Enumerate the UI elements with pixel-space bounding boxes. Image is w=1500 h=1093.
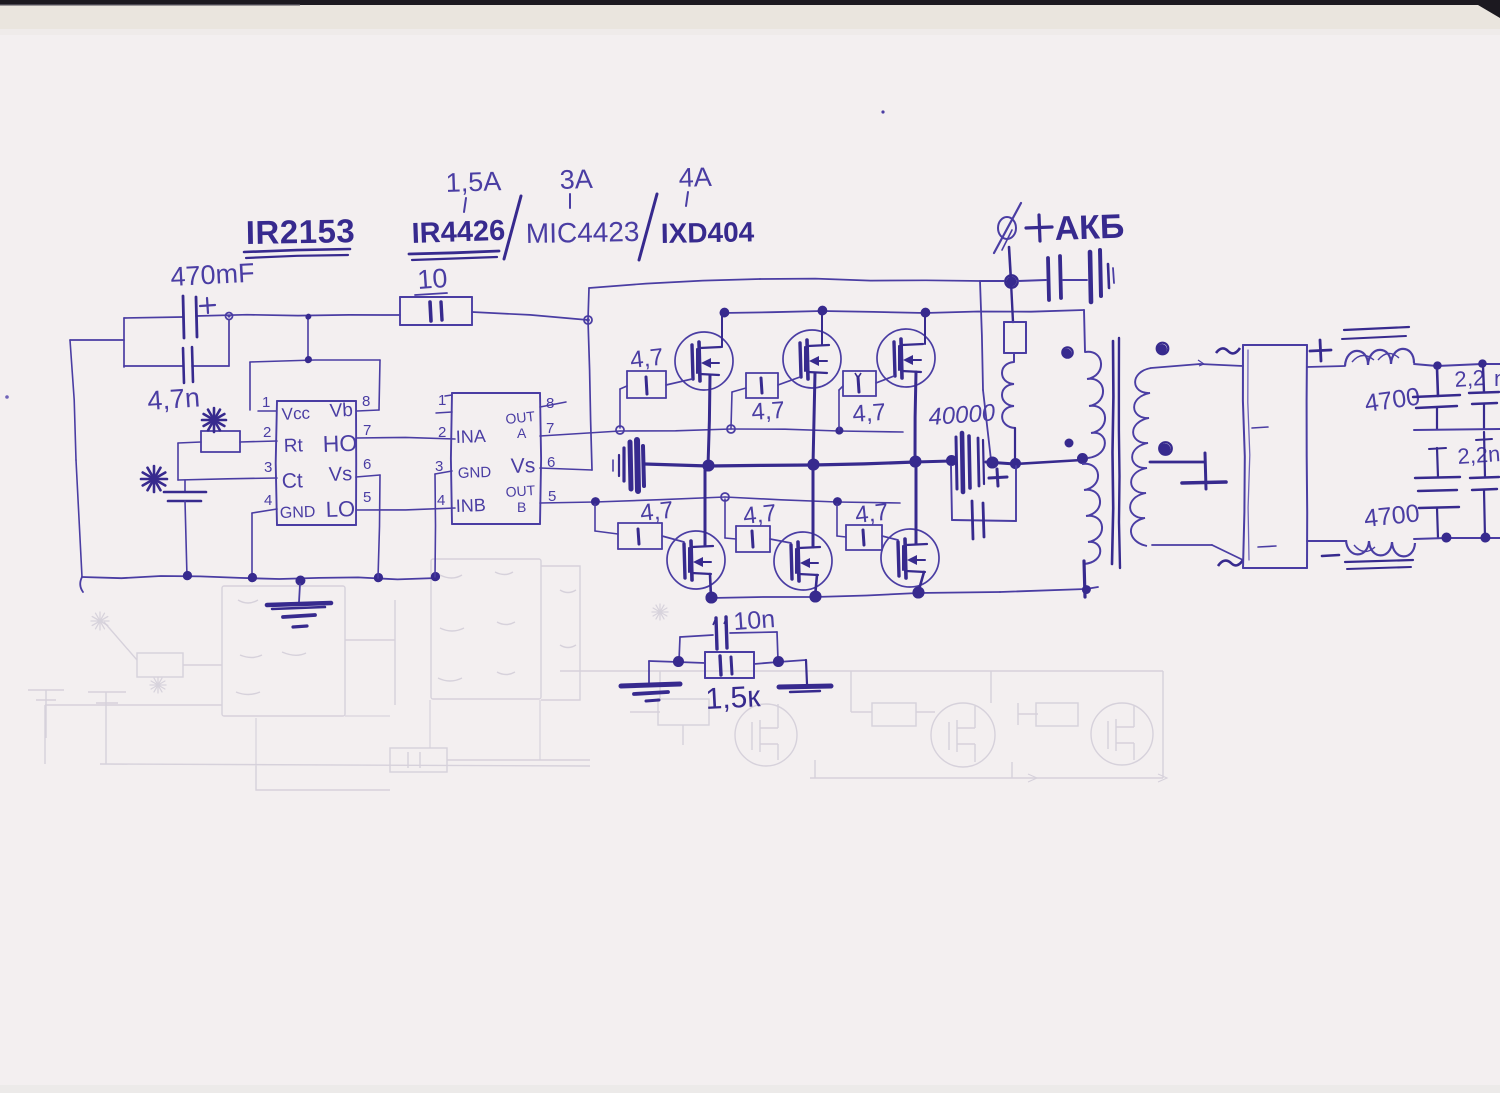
stray pen dot: [881, 110, 884, 113]
wire: T1 primary bottom lead: [1084, 561, 1085, 597]
wire: R1 to Q1 gate: [666, 379, 692, 385]
svg-text:B: B: [517, 499, 526, 515]
wire: AKB junction left to rail: [980, 280, 1004, 282]
T1 lower phase dot: [1065, 439, 1074, 448]
inductor L1 bars above: [1344, 327, 1409, 330]
node: outB j2: [721, 493, 729, 501]
inductor L2 bars below: [1345, 560, 1413, 562]
plus mark secondary mid: [1205, 453, 1206, 489]
wire: Q1 source to mid rail: [708, 375, 710, 466]
battery input terminal scribble: [612, 460, 614, 471]
resistor R4: [618, 522, 662, 524]
plus sign of C1: [200, 305, 215, 306]
svg-text:1,5A: 1,5A: [445, 166, 502, 198]
scanner black bar top: [0, 0, 1500, 5]
op IC U1 IR2153 box: [277, 400, 356, 402]
plus sign output: [1310, 350, 1331, 351]
node: rail j5: [431, 573, 439, 581]
wire: OUT B hook to R4: [594, 504, 596, 531]
capacitor 2,2n top: [1483, 366, 1484, 392]
wire: drain rail drop to transformer: [1084, 310, 1085, 352]
T1 secondary phase dot mid: [1160, 444, 1171, 455]
node: rail j1: [183, 572, 191, 580]
wire: Q5 source to bottom rail: [815, 575, 817, 597]
node: mid j5: [987, 458, 998, 469]
wire: secondary mid tap: [1150, 461, 1205, 464]
resistor 10 inner bars: [430, 302, 431, 321]
capacitor battery cap1 plates: [1048, 258, 1049, 300]
svg-text:2: 2: [263, 424, 271, 441]
rectifier inner dash top: [1252, 427, 1268, 428]
svg-text:7: 7: [363, 422, 371, 439]
transistor Q4: [666, 530, 726, 590]
wire: right vertical from top rail to mid rail: [980, 281, 983, 390]
pin 1 underline: [258, 410, 276, 412]
wire: left outer loop: [70, 339, 124, 341]
capacitor Ct plates: [184, 480, 186, 492]
svg-text:8: 8: [362, 393, 370, 410]
resistor R1: [627, 370, 666, 372]
wire: Rt left leg down: [178, 442, 201, 443]
wire: Q6 source to bottom rail: [918, 572, 924, 593]
wire: Ct to ground rail: [185, 501, 187, 577]
svg-text:GND: GND: [458, 464, 492, 482]
svg-text:Vcc: Vcc: [281, 404, 311, 424]
node: outA j2: [727, 425, 735, 433]
wire: left bracket vertical: [123, 318, 125, 367]
svg-text:2: 2: [438, 424, 446, 441]
svg-text:OUT: OUT: [505, 482, 536, 500]
wire: bridge left vertical: [588, 288, 589, 320]
capacitor 4700 bottom: [1437, 448, 1438, 477]
inductor choke loops: [1002, 362, 1015, 428]
node: T1 center tap: [1077, 454, 1087, 464]
node: bottom j1: [706, 593, 717, 604]
svg-text:HO: HO: [322, 430, 357, 457]
wire: Q3 drain to rail: [924, 313, 926, 344]
svg-text:10: 10: [416, 263, 448, 295]
wire: Q4 drain to mid rail: [704, 466, 707, 546]
svg-text:GND: GND: [280, 504, 316, 522]
slash separator: [639, 194, 657, 260]
bypass cap plates: [972, 501, 973, 539]
capacitor lower bypass loop: [951, 466, 952, 520]
tilde AC mark top: [1216, 348, 1240, 353]
wire: between caps: [1063, 279, 1087, 281]
rectifier bridge box: [1243, 344, 1307, 346]
wire: 10 resistor to bridge: [472, 312, 588, 320]
node: drain j2: [818, 307, 827, 316]
wire: mid rail right of cap: [986, 462, 1015, 464]
svg-text:3: 3: [264, 459, 272, 476]
wire: U1 GND pin4 to rail: [252, 509, 277, 513]
driver IC U2 box: [452, 392, 540, 394]
node: out bot j2: [1481, 534, 1490, 543]
node: junction on top wire: [226, 313, 233, 320]
wire: top supply rail of bridge: [589, 279, 760, 288]
svg-text:MIC4423: MIC4423: [526, 216, 640, 249]
tilde AC mark bottom: [1218, 560, 1243, 566]
wire: Q5 drain to mid rail: [812, 465, 815, 547]
wire: mid rail heavy: [645, 464, 708, 466]
wire: output top rail: [1414, 364, 1437, 366]
wire: AKB terminal drop: [1009, 247, 1011, 281]
svg-text:40000: 40000: [928, 399, 997, 431]
svg-text:5: 5: [363, 489, 371, 506]
pin 8 underline: [357, 410, 379, 411]
svg-text:Vb: Vb: [329, 400, 353, 422]
plus sign at battery cap: [989, 477, 1007, 478]
capacitor C1 470mF plates: [183, 296, 184, 338]
transformer T1 core: [1112, 341, 1113, 564]
resistor R6: [846, 524, 882, 526]
wire: R2 left hook to OUT A: [732, 388, 746, 392]
wire: R6 to Q6 gate: [882, 536, 898, 540]
svg-text:4,7: 4,7: [751, 397, 786, 426]
wire: U1 Vcc-Vb top bracket: [249, 362, 251, 410]
wire: R3 left hook to OUT A: [839, 386, 843, 390]
transistor Q3: [876, 328, 937, 389]
wire: secondary top lead: [1151, 364, 1200, 368]
svg-text:1: 1: [262, 394, 270, 411]
node: outB j3: [833, 498, 841, 506]
wire: U1 LO to U2 INB: [356, 508, 455, 510]
resistor 1,5k box: [705, 651, 754, 653]
wire: bottom rail right: [1414, 538, 1446, 539]
svg-text:4700: 4700: [1363, 499, 1421, 533]
wire: U1 HO to U2 INA: [356, 437, 455, 439]
wire: Rt to pin2: [240, 441, 277, 442]
capacitor 40000 plates: [956, 437, 957, 489]
node: snubber right j: [773, 657, 783, 667]
T1 secondary phase dot top: [1157, 344, 1167, 354]
node: out top j1: [1433, 362, 1441, 370]
terminal circle-slash: [998, 217, 1016, 239]
transformer T1 primary upper winding: [1085, 352, 1105, 458]
svg-text:LO: LO: [325, 496, 355, 522]
wire: Q2 drain to rail: [821, 311, 823, 345]
transformer T1 secondary winding: [1130, 368, 1151, 546]
U2 pin8 stub: [540, 402, 566, 407]
wire: snubber right: [754, 662, 778, 664]
star mark near Rt: [202, 419, 226, 422]
svg-text:Vs: Vs: [328, 463, 352, 486]
wire: output bottom rail: [1307, 540, 1345, 542]
wire: U1 Vs bracket down to rail: [356, 475, 380, 477]
minus sign output: [1322, 555, 1339, 556]
wire: Q6 drain to mid rail: [915, 462, 918, 544]
svg-text:470mF: 470mF: [170, 258, 256, 292]
wire: Q1 drain to rail: [721, 313, 723, 347]
wire: drain rail: [722, 311, 822, 313]
svg-text:INB: INB: [455, 495, 486, 516]
capacitor 10n plates: [716, 618, 717, 649]
svg-text:IR4426: IR4426: [411, 215, 506, 250]
capacitor 4700 top plates: [1437, 368, 1438, 396]
ground symbol left of snubber: [648, 661, 650, 684]
transformer T1 primary phase dot: [1063, 349, 1072, 358]
node: out top j2: [1478, 360, 1486, 368]
transistor Q5: [772, 530, 834, 592]
wire: AKB junction right: [1018, 280, 1046, 281]
rectifier inner dash bottom: [1258, 546, 1276, 547]
node: bottom j4: [1082, 586, 1090, 594]
wire: rectifier plus output: [1307, 366, 1345, 367]
wire: Q2 source to mid rail: [813, 373, 815, 465]
node: rail j4: [374, 574, 382, 582]
wire: supply drop to U1 bracket: [307, 316, 309, 360]
svg-text:2,2n: 2,2n: [1457, 441, 1500, 469]
wire: snubber top bracket: [680, 635, 713, 637]
svg-text:4: 4: [437, 492, 445, 509]
plus sign AKB: [1026, 227, 1052, 228]
svg-text:8: 8: [546, 395, 554, 412]
wire: fuse to choke: [1013, 353, 1015, 362]
wire: snubber left: [649, 661, 678, 662]
wire: choke to mid rail: [1014, 428, 1016, 461]
svg-text:4,7: 4,7: [629, 344, 665, 374]
wire: OUT B hook to R5: [724, 499, 726, 538]
ground rail wire: [82, 576, 437, 579]
wire: R1 left hook to OUT A: [620, 386, 627, 389]
capacitor battery cap2 plates: [1090, 252, 1091, 302]
node: mid j6: [1010, 459, 1020, 469]
wire: bridge bottom rail: [711, 597, 815, 598]
svg-text:INA: INA: [455, 426, 486, 447]
svg-text:4A: 4A: [678, 162, 712, 193]
wire: OUT B rail: [540, 502, 595, 503]
node: snubber left j: [673, 657, 683, 667]
svg-text:IR2153: IR2153: [245, 212, 355, 251]
svg-text:4,7: 4,7: [852, 399, 887, 428]
ground stub right of snubber: [806, 660, 807, 684]
capacitor 2,2n bottom: [1484, 432, 1485, 477]
node: out bot j1: [1442, 534, 1451, 543]
node: rail j2: [248, 574, 256, 582]
node: outB j1: [591, 498, 599, 506]
wire: OUT A rail: [540, 431, 620, 436]
U2 pin1 stub: [436, 412, 452, 413]
node: outA j1: [616, 426, 624, 434]
top supply wire: [124, 317, 183, 318]
resistor R5: [736, 525, 770, 527]
wire: C2 riser to top wire: [228, 320, 230, 366]
wire: R2 to Q2 gate: [778, 377, 800, 385]
node: mid j4: [946, 456, 956, 466]
ghost print-through layer: [28, 559, 1167, 790]
inductor L2: [1346, 540, 1415, 556]
capacitor C2 4,7n plates: [183, 348, 184, 383]
wire: R4 to Q4 gate: [662, 536, 684, 542]
node: outA j3: [835, 427, 842, 434]
transistor Q1: [674, 331, 734, 391]
resistor R3: [843, 370, 876, 372]
resistor 10 box: [400, 296, 472, 298]
node: mid j3: [910, 457, 921, 468]
resistor R2: [746, 372, 778, 374]
wire: Q3 source to mid rail: [915, 372, 916, 462]
svg-text:3A: 3A: [559, 164, 593, 195]
svg-text:6: 6: [363, 456, 371, 473]
slash separator: [504, 196, 521, 259]
svg-text:1,5к: 1,5к: [705, 680, 762, 716]
wire: Ct node to pin3: [178, 478, 277, 480]
node: AKB junction: [1007, 278, 1016, 287]
wire: second harness: [124, 365, 183, 367]
node: rail j3 ground tap: [296, 577, 305, 586]
wire: secondary bottom lead: [1152, 544, 1212, 546]
svg-text:n: n: [1494, 366, 1500, 391]
wire: R3 to Q3 gate: [876, 376, 894, 383]
node: bracket junction: [305, 357, 311, 363]
wire: R5 to Q5 gate: [770, 539, 791, 543]
wire: U2 Vs pin6 to bridge left: [540, 468, 592, 470]
node: drain j1: [720, 309, 729, 318]
ground symbol: [299, 584, 300, 602]
wire: Q4 source to bottom rail: [710, 574, 711, 598]
inductor L1: [1345, 349, 1414, 366]
wire: OUT B hook to R6: [836, 504, 838, 536]
svg-text:Vs: Vs: [510, 454, 535, 478]
wire: U2 GND pin3 to rail: [435, 471, 452, 474]
transistor Q6: [879, 527, 940, 588]
svg-text:АКБ: АКБ: [1054, 208, 1125, 248]
svg-text:4,7n: 4,7n: [146, 382, 201, 416]
node: junction 10ohm wire: [584, 316, 592, 324]
star mark near Ct: [141, 478, 167, 481]
node: bottom j3: [913, 588, 924, 599]
svg-text:A: A: [517, 425, 527, 441]
svg-text:Rt: Rt: [283, 435, 303, 457]
transformer T1 primary lower winding: [1082, 464, 1102, 564]
node: supply junction top: [305, 314, 310, 319]
transistor Q2: [783, 330, 842, 389]
svg-text:4: 4: [264, 492, 272, 509]
svg-text:1: 1: [438, 392, 446, 409]
fuse box: [1011, 282, 1013, 322]
svg-text:IXD404: IXD404: [661, 216, 755, 249]
node: drain j3: [921, 309, 930, 318]
svg-text:Ct: Ct: [281, 469, 303, 493]
svg-text:2,2: 2,2: [1454, 365, 1486, 392]
node: bottom j2: [810, 592, 821, 603]
node: mid j1: [703, 461, 714, 472]
wire: output mid rail: [1414, 429, 1500, 430]
node: mid j2: [808, 460, 819, 471]
resistor Rt box: [201, 430, 240, 432]
